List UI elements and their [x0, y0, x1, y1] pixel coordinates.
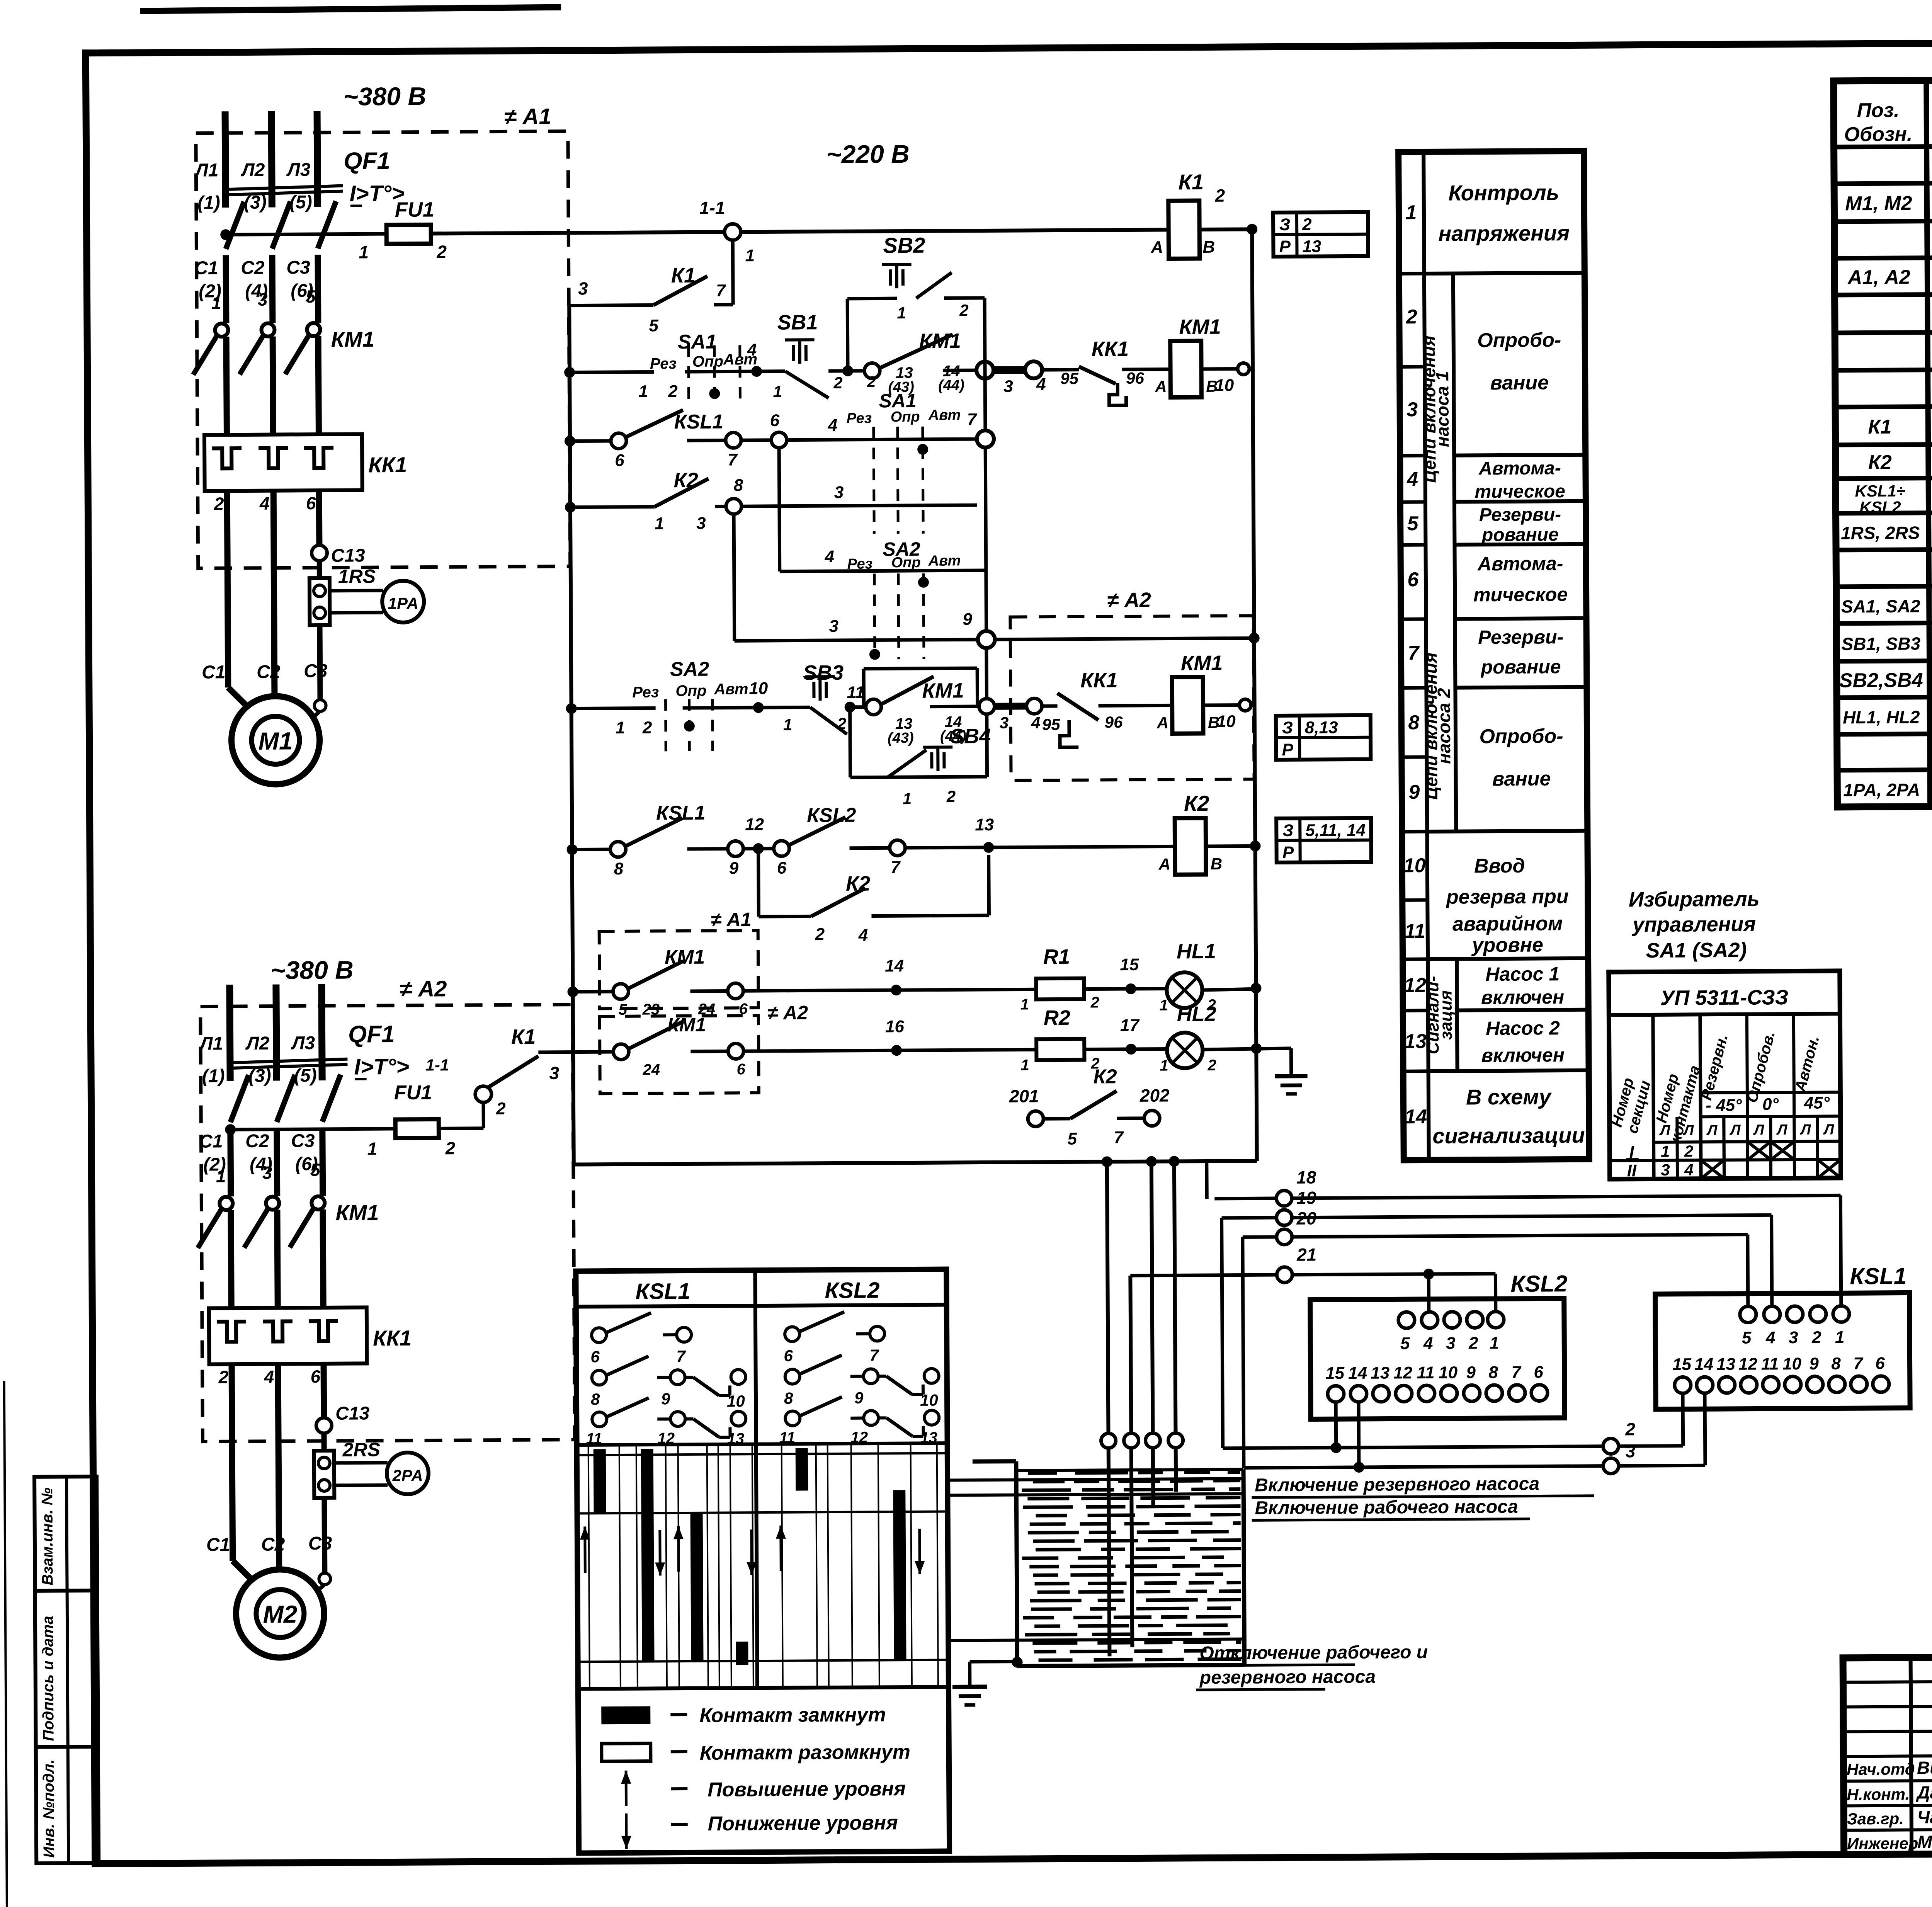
svg-text:2: 2 — [1207, 1057, 1216, 1074]
svg-text:Л: Л — [1823, 1121, 1834, 1138]
tank ground — [970, 1660, 1017, 1664]
svg-text:7: 7 — [967, 410, 978, 429]
svg-text:А1, А2: А1, А2 — [1847, 266, 1910, 289]
svg-text:КМ1: КМ1 — [1181, 652, 1223, 675]
svg-text:6: 6 — [1875, 1354, 1885, 1373]
thermal relay KK1 — [204, 434, 362, 491]
svg-text:Л3: Л3 — [291, 1033, 315, 1053]
ammeter 2PA — [334, 1461, 388, 1465]
svg-text:SВ1: SВ1 — [777, 311, 818, 334]
svg-text:12: 12 — [745, 815, 764, 834]
svg-text:QF1: QF1 — [344, 148, 390, 175]
signal lamp HL1 — [1167, 972, 1202, 1008]
svg-text:2: 2 — [837, 714, 847, 733]
node 1-1 on rail — [724, 224, 741, 240]
svg-text:1: 1 — [1490, 1334, 1499, 1352]
svg-text:6: 6 — [777, 859, 787, 878]
svg-text:Контроль: Контроль — [1448, 180, 1559, 205]
bypass branch with SB2 — [846, 299, 850, 371]
svg-text:аварийном: аварийном — [1452, 912, 1563, 935]
svg-text:Инженер: Инженер — [1847, 1834, 1918, 1853]
svg-text:НL2: НL2 — [1177, 1002, 1216, 1026]
svg-text:13: 13 — [1302, 237, 1321, 256]
svg-text:SА1: SА1 — [879, 390, 917, 412]
svg-text:С1: С1 — [206, 1534, 230, 1555]
svg-text:УП 5311-СЗЗ: УП 5311-СЗЗ — [1660, 986, 1789, 1010]
svg-text:Включение рабочего насоса: Включение рабочего насоса — [1255, 1497, 1518, 1519]
svg-text:КК1: КК1 — [1092, 337, 1129, 361]
svg-text:10: 10 — [1439, 1363, 1458, 1382]
svg-text:С1: С1 — [202, 662, 226, 682]
svg-text:В: В — [1211, 855, 1223, 873]
svg-text:5: 5 — [306, 286, 316, 306]
svg-text:12: 12 — [850, 1429, 868, 1446]
svg-text:10: 10 — [920, 1391, 938, 1409]
svg-text:зация: зация — [1437, 990, 1456, 1039]
svg-text:Насос 2: Насос 2 — [1486, 1017, 1560, 1039]
svg-text:С13: С13 — [335, 1403, 370, 1424]
svg-text:Опр: Опр — [675, 682, 706, 699]
svg-text:5: 5 — [1407, 512, 1419, 535]
node 8 drop to lower rung — [734, 514, 735, 641]
svg-text:Л: Л — [1706, 1122, 1718, 1138]
wire 3 (KSL2-14 / KSL1-14) — [1357, 1402, 1361, 1467]
svg-text:7: 7 — [676, 1347, 686, 1365]
svg-text:SВ3: SВ3 — [803, 661, 844, 685]
connector block KSL2 — [1310, 1298, 1565, 1419]
phase wires to motor — [227, 491, 228, 687]
svg-text:напряжения: напряжения — [1438, 221, 1570, 246]
svg-text:(44): (44) — [938, 377, 964, 393]
svg-text:КМ1: КМ1 — [331, 327, 374, 352]
svg-text:SВ2: SВ2 — [883, 233, 925, 258]
svg-text:2: 2 — [867, 373, 876, 390]
svg-text:6: 6 — [770, 411, 780, 430]
svg-text:Резерви-: Резерви- — [1479, 504, 1561, 525]
svg-text:4: 4 — [1765, 1328, 1776, 1347]
svg-text:2: 2 — [218, 1367, 229, 1387]
ground after HL2 — [1289, 1048, 1293, 1076]
svg-text:С3: С3 — [304, 661, 328, 681]
svg-text:9: 9 — [854, 1389, 864, 1407]
svg-text:М1: М1 — [258, 727, 293, 755]
svg-text:19: 19 — [1296, 1187, 1316, 1208]
svg-text:НL1: НL1 — [1177, 940, 1216, 963]
thermal relay KK1 — [209, 1307, 367, 1364]
svg-text:6: 6 — [784, 1347, 793, 1365]
svg-text:10: 10 — [1403, 854, 1426, 877]
svg-text:11: 11 — [847, 683, 864, 702]
dashed block box М2 feeder — [201, 1005, 575, 1442]
svg-text:тическое: тическое — [1473, 583, 1568, 606]
svg-text:14: 14 — [1348, 1364, 1367, 1383]
svg-text:SА1, SА2: SА1, SА2 — [1841, 596, 1920, 616]
motor М1 — [231, 696, 320, 784]
svg-text:R2: R2 — [1044, 1006, 1070, 1029]
svg-text:11: 11 — [586, 1430, 602, 1447]
circuit breaker QF1 — [230, 1075, 249, 1122]
svg-text:Опробо-: Опробо- — [1477, 329, 1561, 352]
selector SA2 linkage dashes — [874, 573, 875, 659]
connector block KSL1 — [1655, 1293, 1910, 1409]
svg-text:Л2: Л2 — [245, 1033, 269, 1054]
svg-text:КМ1: КМ1 — [1179, 315, 1221, 339]
svg-text:4: 4 — [747, 340, 757, 359]
svg-text:13: 13 — [975, 815, 994, 834]
closed-contact bars — [594, 1449, 606, 1513]
motor М2 — [236, 1569, 324, 1658]
svg-text:KSL1÷: KSL1÷ — [1855, 481, 1905, 500]
svg-text:2РА: 2РА — [392, 1466, 423, 1485]
svg-text:К1: К1 — [511, 1025, 536, 1048]
svg-text:НL1, НL2: НL1, НL2 — [1843, 707, 1920, 727]
svg-text:Подпись и дата: Подпись и дата — [39, 1616, 57, 1741]
thin column rules — [588, 1445, 590, 1689]
svg-text:Резерви-: Резерви- — [1478, 626, 1563, 648]
upper bypass loop — [862, 669, 866, 707]
svg-text:Л: Л — [1776, 1122, 1787, 1138]
svg-text:14: 14 — [1694, 1355, 1713, 1374]
svg-text:6: 6 — [1534, 1363, 1543, 1381]
left vertical rail — [569, 306, 574, 1165]
bypass contact K2 (self hold) — [757, 849, 760, 917]
relay coil K2 — [1175, 818, 1206, 874]
svg-text:≠ А1: ≠ А1 — [711, 908, 752, 931]
svg-text:1: 1 — [783, 716, 793, 734]
svg-text:I>Т°>: I>Т°> — [354, 1054, 409, 1080]
svg-text:24: 24 — [642, 1061, 660, 1078]
svg-text:1: 1 — [359, 242, 369, 262]
dashed box A1 around KM1 23-24 — [599, 931, 759, 1009]
svg-text:13: 13 — [920, 1429, 937, 1446]
svg-text:SВ1, SВ3: SВ1, SВ3 — [1841, 633, 1920, 654]
svg-text:Обозн.: Обозн. — [1844, 123, 1912, 146]
water level lines — [947, 1478, 1243, 1480]
svg-text:Инв. №подл.: Инв. №подл. — [40, 1759, 58, 1858]
svg-text:3: 3 — [1406, 398, 1418, 421]
svg-text:SА2: SА2 — [670, 658, 709, 681]
svg-text:3: 3 — [262, 1163, 272, 1183]
parts list table grid — [1833, 77, 1932, 807]
svg-text:Авт: Авт — [928, 407, 961, 423]
svg-text:Зав.гр.: Зав.гр. — [1847, 1810, 1904, 1828]
svg-text:≠ А2: ≠ А2 — [767, 1002, 808, 1024]
phase bus stubs L1 L2 L3 — [230, 985, 230, 1081]
wire 21 — [1277, 1267, 1292, 1283]
svg-text:5,11, 14: 5,11, 14 — [1305, 821, 1366, 840]
svg-text:(1): (1) — [202, 1066, 225, 1086]
svg-text:рование: рование — [1481, 524, 1559, 545]
svg-text:Л1: Л1 — [194, 160, 219, 180]
svg-text:4: 4 — [259, 493, 270, 514]
svg-text:10: 10 — [1215, 376, 1234, 395]
svg-text:Поз.: Поз. — [1857, 99, 1899, 122]
svg-text:8: 8 — [614, 859, 624, 878]
svg-text:2: 2 — [1406, 306, 1417, 328]
svg-text:Автома-: Автома- — [1478, 458, 1561, 479]
svg-text:1: 1 — [655, 514, 664, 533]
dashed block box A2 around rung5 — [1010, 616, 1254, 780]
svg-text:7: 7 — [1853, 1354, 1864, 1373]
svg-text:1: 1 — [1160, 1057, 1168, 1074]
direction arrows — [583, 1526, 587, 1573]
signal lamp HL2 — [1167, 1033, 1202, 1068]
svg-text:Л2: Л2 — [241, 160, 265, 180]
svg-text:С2: С2 — [241, 258, 265, 278]
svg-text:З: З — [1282, 821, 1294, 840]
svg-text:8,13: 8,13 — [1305, 718, 1338, 737]
svg-text:5: 5 — [649, 316, 658, 335]
svg-text:КSL2: КSL2 — [1510, 1271, 1567, 1297]
svg-text:С2: С2 — [257, 662, 281, 682]
svg-text:М2: М2 — [263, 1600, 297, 1628]
svg-text:К2: К2 — [1184, 791, 1209, 815]
dashed box A2 around KM1 23-24 (rung9) — [600, 1016, 759, 1094]
svg-text:включен: включен — [1481, 1044, 1565, 1066]
svg-text:4: 4 — [1406, 468, 1418, 490]
svg-text:8: 8 — [1831, 1354, 1841, 1373]
svg-text:- 45°: - 45° — [1706, 1096, 1742, 1115]
svg-text:11: 11 — [1417, 1363, 1435, 1382]
svg-text:К2: К2 — [1868, 451, 1892, 474]
title block — [1843, 1654, 1932, 1854]
svg-text:8: 8 — [591, 1390, 600, 1408]
svg-text:10: 10 — [749, 679, 768, 698]
svg-text:насоса 1: насоса 1 — [1432, 371, 1452, 447]
svg-text:1: 1 — [211, 293, 221, 313]
svg-text:КМ1: КМ1 — [335, 1200, 379, 1225]
cross-ref table K1 — [1273, 212, 1368, 257]
svg-text:4: 4 — [1684, 1160, 1694, 1179]
svg-text:SВ2,SВ4: SВ2,SВ4 — [1839, 669, 1923, 692]
svg-text:13: 13 — [1716, 1355, 1735, 1374]
svg-text:2: 2 — [1684, 1142, 1694, 1160]
svg-text:1: 1 — [1160, 997, 1168, 1014]
svg-text:М1, М2: М1, М2 — [1845, 192, 1912, 215]
svg-text:К2: К2 — [1094, 1065, 1117, 1088]
svg-text:3: 3 — [1003, 377, 1013, 396]
svg-text:(44): (44) — [940, 728, 966, 744]
block boundary terminals 3-4 — [976, 362, 993, 379]
contactor aux KM1 on rung 5 — [866, 699, 881, 714]
rung 10 : K2 contact 201-202 — [1028, 1111, 1043, 1126]
rung 6 : KSL1 KSL2 to K2 coil — [572, 848, 611, 852]
svg-text:Включение резервного насоса: Включение резервного насоса — [1255, 1473, 1539, 1495]
svg-text:10: 10 — [727, 1392, 745, 1410]
contact symbols rows — [592, 1328, 606, 1342]
legend — [601, 1706, 650, 1725]
rung 8 : KM1 23-24, R1, HL1 — [573, 990, 613, 994]
middle spine vertical — [985, 298, 987, 777]
220V top rail — [431, 230, 1167, 233]
circuit breaker QF1 — [226, 202, 245, 249]
svg-text:КSL1: КSL1 — [635, 1279, 690, 1304]
svg-text:KSL2: KSL2 — [1859, 498, 1901, 517]
fuse FU1 (block A1) — [226, 234, 386, 235]
svg-text:1: 1 — [1661, 1142, 1670, 1160]
svg-text:8: 8 — [1408, 711, 1419, 734]
selector SA1 second contact group dashes — [874, 427, 874, 534]
svg-text:1: 1 — [773, 383, 782, 401]
svg-text:3: 3 — [1789, 1328, 1798, 1347]
svg-text:3: 3 — [834, 483, 844, 502]
svg-text:1: 1 — [1405, 201, 1417, 224]
bottom horizontal bus — [574, 1161, 1257, 1164]
svg-text:2: 2 — [436, 242, 447, 262]
svg-text:3: 3 — [1000, 714, 1009, 732]
contactor KM1 main contacts — [215, 323, 228, 337]
svg-text:2: 2 — [1625, 1419, 1635, 1439]
svg-text:Ввод: Ввод — [1474, 855, 1525, 878]
svg-text:Давлианидзе: Давлианидзе — [1915, 1782, 1932, 1803]
svg-text:Контакт замкнут: Контакт замкнут — [699, 1703, 886, 1727]
svg-text:С3: С3 — [286, 257, 310, 278]
svg-text:5: 5 — [1067, 1130, 1077, 1148]
svg-text:5: 5 — [310, 1160, 321, 1180]
svg-text:К1: К1 — [671, 264, 696, 287]
svg-text:6: 6 — [615, 451, 624, 470]
terminals 3-4 rung5 — [979, 699, 995, 714]
svg-text:7: 7 — [716, 281, 726, 300]
svg-text:уровне: уровне — [1471, 934, 1543, 956]
svg-text:≠ А1: ≠ А1 — [504, 104, 551, 129]
svg-text:КК1: КК1 — [1080, 669, 1118, 692]
svg-text:2RS: 2RS — [342, 1439, 381, 1461]
svg-text:Авт: Авт — [928, 553, 961, 569]
rung 3 : KSL1 contact — [570, 439, 611, 443]
motor M2 leads — [313, 1584, 325, 1594]
svg-text:95: 95 — [1042, 715, 1061, 733]
svg-text:Р: Р — [1282, 843, 1294, 862]
svg-text:Л3: Л3 — [286, 160, 311, 180]
svg-text:7: 7 — [1511, 1363, 1522, 1382]
selector table УП 5311-С33 — [1609, 971, 1841, 1179]
svg-text:45°: 45° — [1804, 1094, 1830, 1113]
svg-text:1RS: 1RS — [338, 565, 376, 587]
fuse FU1 (block A2) — [230, 1129, 395, 1130]
svg-text:6: 6 — [311, 1366, 321, 1386]
svg-text:7: 7 — [891, 858, 901, 877]
wire 19 — [1222, 1218, 1223, 1448]
svg-text:С2: С2 — [245, 1131, 269, 1152]
rung 3a to node 9 — [735, 640, 978, 641]
svg-text:2: 2 — [668, 382, 678, 401]
svg-text:Авт: Авт — [714, 680, 748, 697]
svg-text:А: А — [1156, 713, 1169, 731]
thermal contact KK1 rung5 — [1042, 704, 1058, 708]
svg-text:3: 3 — [549, 1063, 559, 1083]
svg-text:Магулария: Магулария — [1917, 1831, 1932, 1852]
svg-text:Нач.отд: Нач.отд — [1847, 1760, 1915, 1778]
svg-text:К1: К1 — [1178, 170, 1204, 194]
svg-text:8: 8 — [784, 1389, 793, 1407]
svg-text:1-1: 1-1 — [425, 1056, 449, 1074]
svg-text:9: 9 — [1809, 1354, 1819, 1373]
selector SA1 contact dashes — [687, 345, 690, 405]
svg-text:96: 96 — [1105, 713, 1123, 731]
svg-text:SА1 (SА2): SА1 (SА2) — [1646, 939, 1747, 962]
svg-text:С3: С3 — [291, 1131, 315, 1151]
svg-text:1RS, 2RS: 1RS, 2RS — [1841, 522, 1920, 543]
svg-text:0°: 0° — [1762, 1095, 1779, 1114]
svg-text:R1: R1 — [1043, 945, 1070, 968]
resistor R2 — [1036, 1039, 1084, 1060]
svg-text:18: 18 — [1296, 1167, 1316, 1187]
svg-text:2: 2 — [1090, 994, 1099, 1011]
rung 9 : K1 feed, KM1 23-24, R2, HL2 — [538, 1052, 613, 1052]
svg-text:8: 8 — [734, 476, 743, 495]
svg-text:З: З — [1282, 718, 1293, 737]
left paper edge — [4, 1381, 7, 1907]
svg-text:Л: Л — [1753, 1122, 1764, 1138]
svg-text:1: 1 — [638, 382, 648, 401]
svg-text:11: 11 — [779, 1429, 795, 1446]
phase wires QF1 to KM1 — [223, 255, 229, 323]
svg-text:FU1: FU1 — [395, 198, 434, 221]
svg-text:Опр: Опр — [692, 353, 723, 370]
level lines inside diagram — [577, 1453, 947, 1455]
svg-text:З: З — [1279, 215, 1291, 234]
svg-text:С1: С1 — [194, 258, 218, 278]
svg-text:4: 4 — [1031, 713, 1041, 731]
svg-text:1: 1 — [616, 718, 625, 737]
svg-text:КSL1: КSL1 — [1850, 1263, 1906, 1289]
svg-text:4: 4 — [828, 416, 838, 435]
svg-text:1: 1 — [1020, 996, 1029, 1013]
svg-text:Опробо-: Опробо- — [1479, 725, 1563, 748]
svg-text:Опр: Опр — [891, 409, 920, 425]
svg-text:7: 7 — [728, 450, 738, 469]
phase wires to motor — [232, 1364, 233, 1561]
svg-text:201: 201 — [1009, 1086, 1039, 1106]
svg-text:9: 9 — [1408, 781, 1420, 803]
svg-text:2: 2 — [833, 374, 843, 392]
svg-text:5: 5 — [1400, 1334, 1410, 1353]
motor M1 leads — [309, 711, 320, 721]
svg-text:95: 95 — [1060, 369, 1079, 388]
svg-text:В схему: В схему — [1466, 1084, 1552, 1109]
svg-text:А: А — [1150, 238, 1163, 257]
svg-text:резерва при: резерва при — [1446, 885, 1569, 908]
svg-text:КSL1: КSL1 — [656, 802, 706, 825]
svg-text:6: 6 — [736, 1061, 745, 1078]
svg-text:А: А — [1155, 377, 1167, 395]
svg-text:Опр: Опр — [891, 555, 921, 571]
svg-text:6: 6 — [306, 493, 316, 513]
svg-text:С3: С3 — [308, 1533, 332, 1554]
svg-text:3: 3 — [258, 289, 268, 310]
svg-text:4: 4 — [824, 547, 834, 566]
svg-text:1: 1 — [367, 1138, 377, 1158]
svg-text:2: 2 — [1811, 1328, 1821, 1347]
svg-text:Рез: Рез — [632, 684, 659, 701]
svg-text:В: В — [1202, 238, 1215, 257]
svg-text:2: 2 — [214, 493, 224, 514]
svg-text:С1: С1 — [199, 1131, 223, 1152]
svg-text:13: 13 — [1371, 1364, 1389, 1383]
svg-text:16: 16 — [885, 1017, 905, 1036]
tank walls — [973, 1459, 1016, 1464]
svg-text:включен: включен — [1481, 986, 1564, 1008]
rung 5 : SA2, SB3, KM1 aux, KK1, KM1 coil (pump2) — [571, 708, 656, 708]
svg-text:Насос 1: Насос 1 — [1485, 963, 1560, 985]
contactor aux contact KM1 (13-14) — [864, 363, 880, 378]
svg-text:Л1: Л1 — [199, 1033, 223, 1054]
svg-text:12: 12 — [657, 1430, 675, 1447]
electrode rods — [1107, 1162, 1110, 1656]
contactor coil KM1 (pump1) — [1170, 341, 1202, 397]
svg-text:1РА, 2РА: 1РА, 2РА — [1843, 779, 1920, 800]
